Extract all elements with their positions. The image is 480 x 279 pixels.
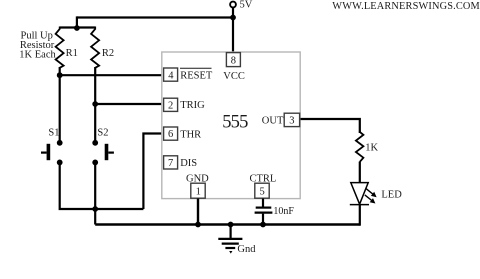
svg-text:S1: S1 [48,128,59,139]
node junction above R1/R2 [74,25,80,31]
svg-text:TRIG: TRIG [180,100,205,111]
wire THR up to pin 6 [143,134,163,210]
svg-text:6: 6 [168,129,173,140]
svg-text:3: 3 [289,116,294,127]
svg-text:7: 7 [168,158,173,169]
node junction RESET [57,72,63,78]
svg-text:2: 2 [168,100,173,111]
resistor 1K [356,131,364,162]
node junction TRIG [92,101,98,107]
node junction pin1/bus [195,222,201,228]
svg-text:WWW.LEARNERSWINGS.COM: WWW.LEARNERSWINGS.COM [332,1,480,12]
svg-text:8: 8 [231,55,236,66]
wire R2 bottom down to S2 [94,67,96,142]
switch S1 pushbutton [41,140,63,165]
svg-text:R2: R2 [102,48,114,59]
ground symbol [218,225,242,254]
svg-text:OUT: OUT [262,116,284,127]
svg-text:10nF: 10nF [273,206,294,217]
wire R1 bottom down to S1 [59,67,61,142]
op-amp U1 555 IC body [162,52,300,199]
svg-text:LED: LED [381,189,402,200]
svg-text:THR: THR [180,129,201,140]
resistor R2 [91,27,99,68]
svg-text:R1: R1 [66,48,78,59]
svg-text:Gnd: Gnd [237,244,256,255]
svg-text:5: 5 [260,187,265,198]
wire TRIG to pin 2 [95,103,164,105]
svg-text:1K: 1K [365,143,378,154]
pin 4 box RESET [164,68,178,81]
wire RESET to pin 4 [60,74,164,76]
node junction at top wire [230,15,236,21]
wire S1 bottom down and right [60,162,144,209]
wire resistor to LED [359,162,361,183]
pin 8 box VCC [226,53,240,67]
pin 5 box CTRL [255,183,269,198]
resistor R1 [56,27,64,68]
wire short vertical to R1/R2 tie bar [76,16,78,27]
wire OUT pin 3 to resistor [301,119,360,133]
wire pin 1 down to bus [197,199,199,225]
svg-text:555: 555 [222,113,248,133]
svg-text:DIS: DIS [180,158,197,169]
node junction cap/bus [260,222,266,228]
wire ground bus [95,223,360,225]
wire LED to bus [359,205,361,226]
svg-text:VCC: VCC [223,71,245,82]
wire top horizontal [77,16,233,18]
node junction S2 bottom [92,206,98,212]
pin 6 box THR [164,127,178,140]
svg-text:S2: S2 [97,128,108,139]
svg-text:1K Each: 1K Each [19,49,56,60]
LED diode [350,183,377,205]
svg-text:1: 1 [196,187,201,198]
switch S2 pushbutton [92,140,114,165]
capacitor C1 [255,199,273,225]
svg-text:4: 4 [168,70,174,81]
svg-text:5V: 5V [240,0,253,11]
pin 2 box TRIG [164,98,178,111]
wire 5V vertical down to VCC pin 8 [232,7,234,52]
wire S2 bottom down to junction [94,162,96,209]
node junction gnd/bus [228,222,234,228]
5V terminal [230,2,236,8]
pin 1 box GND [191,183,205,198]
pin 7 box DIS [164,156,178,169]
wire S2 junction down to bus [94,209,96,225]
svg-text:RESET: RESET [180,70,213,81]
pin 3 box OUT [284,113,299,126]
wire tie bar R1 top to R2 top [60,26,95,28]
